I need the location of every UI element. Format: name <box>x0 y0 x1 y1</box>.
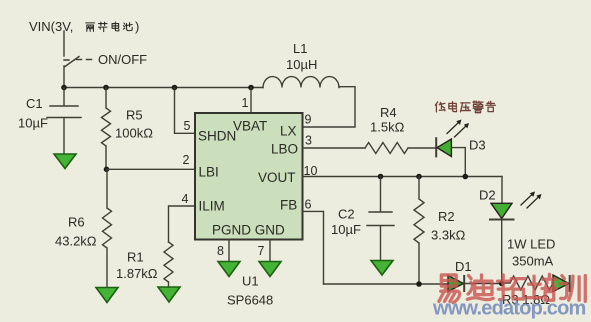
capacitor C1 <box>47 88 81 155</box>
diode arrow right end <box>553 275 570 292</box>
ground GND <box>259 262 281 277</box>
svg-text:LBI: LBI <box>199 165 219 180</box>
resistor R3 <box>502 276 553 290</box>
label VIN CJK 两节电池 <box>86 23 95 31</box>
svg-text:SP6648: SP6648 <box>227 293 273 308</box>
resistor R1 <box>164 242 173 287</box>
wire VIN vertical to switch <box>63 31 65 56</box>
LED D3 <box>436 138 465 176</box>
svg-text:350mA: 350mA <box>512 254 554 269</box>
CJK placeholder groups <box>86 19 496 113</box>
junction dot LBI node <box>104 167 110 173</box>
svg-text:VIN(3V,: VIN(3V, <box>29 19 73 34</box>
arrows D2 <box>521 192 542 209</box>
svg-text:10µF: 10µF <box>18 116 48 131</box>
svg-text:D3: D3 <box>469 138 486 153</box>
svg-text:LBO: LBO <box>271 142 298 157</box>
svg-text:R4: R4 <box>380 105 397 120</box>
junction dot R5 top <box>103 85 109 91</box>
ground R6 <box>96 288 118 303</box>
svg-text:SHDN: SHDN <box>198 129 236 144</box>
wire L1 to LX <box>303 87 356 127</box>
svg-text:10µF: 10µF <box>331 222 361 237</box>
junction dot R2 bottom <box>416 281 422 287</box>
junction dot D2 bottom <box>499 281 505 287</box>
svg-text:R1: R1 <box>127 250 144 265</box>
ground R1 <box>158 287 180 302</box>
pin numbers <box>182 96 318 258</box>
svg-text:FB: FB <box>280 198 297 213</box>
svg-text:LX: LX <box>280 124 297 139</box>
wire VBAT pin1 <box>250 88 252 114</box>
svg-text:8: 8 <box>217 244 224 258</box>
svg-text:D2: D2 <box>479 188 496 203</box>
svg-text:C2: C2 <box>338 207 355 222</box>
ground C1 <box>54 154 76 169</box>
svg-text:10: 10 <box>304 164 318 178</box>
resistor R2 <box>414 177 424 285</box>
label warning CJK 低电压警告 <box>435 102 445 112</box>
svg-text:D1: D1 <box>455 259 472 274</box>
svg-text:R2: R2 <box>438 209 455 224</box>
svg-text:1.5kΩ: 1.5kΩ <box>370 120 405 135</box>
junction dot VIN-C1 <box>61 85 67 91</box>
svg-text:VOUT: VOUT <box>258 170 296 185</box>
svg-text:www.edatop.com: www.edatop.com <box>432 298 586 320</box>
watermark CJK 易迪拓培训 <box>439 275 460 303</box>
arrows D3 <box>447 120 469 138</box>
svg-text:U1: U1 <box>242 274 259 289</box>
junction dot R2 <box>416 174 422 180</box>
svg-text:R5: R5 <box>126 108 143 123</box>
junction dot SHDN <box>172 85 178 91</box>
junction dot pin1/L1 <box>248 85 254 91</box>
IC U1 SP6648 body <box>195 113 303 240</box>
IC pin names <box>198 119 298 238</box>
svg-text:43.2kΩ: 43.2kΩ <box>55 234 97 249</box>
svg-text:): ) <box>135 19 139 34</box>
wire LBO pin3 to R4 <box>303 147 366 149</box>
svg-text:9: 9 <box>305 113 312 127</box>
ground C2 <box>371 261 393 276</box>
svg-text:VBAT: VBAT <box>233 119 267 134</box>
resistor R5 <box>102 88 111 170</box>
resistor R6 <box>103 169 112 287</box>
ground PGND <box>218 262 240 277</box>
LED D2 <box>490 177 514 285</box>
inductor L1 <box>263 77 339 88</box>
svg-text:L1: L1 <box>293 41 307 56</box>
svg-text:2: 2 <box>183 153 190 167</box>
wire PGND pin8 <box>228 240 230 262</box>
junction dot D3 drop <box>463 174 469 180</box>
wire LBI pin2 <box>107 168 196 170</box>
diode D1 <box>448 276 502 292</box>
wire bottom rail <box>324 283 449 285</box>
svg-text:10µH: 10µH <box>286 57 317 72</box>
wire VOUT pin10 <box>303 176 503 178</box>
svg-text:1: 1 <box>242 96 249 110</box>
junction dot C2 <box>378 174 384 180</box>
watermark red CJK <box>439 274 585 302</box>
svg-text:ON/OFF: ON/OFF <box>98 52 147 67</box>
capacitor C2 <box>367 177 394 261</box>
svg-text:7: 7 <box>258 244 265 258</box>
svg-text:C1: C1 <box>26 96 43 111</box>
wire GND pin7 <box>269 240 271 262</box>
svg-text:3: 3 <box>305 134 312 148</box>
resistor R4 <box>365 143 436 154</box>
svg-text:PGND GND: PGND GND <box>212 223 285 238</box>
svg-text:R6: R6 <box>68 215 85 230</box>
svg-text:ILIM: ILIM <box>199 199 225 214</box>
wire top bus <box>64 87 263 89</box>
svg-text:1W LED: 1W LED <box>507 237 555 252</box>
svg-text:1.87kΩ: 1.87kΩ <box>116 266 158 281</box>
svg-text:100kΩ: 100kΩ <box>115 126 153 141</box>
wire FB pin6 <box>303 211 324 284</box>
svg-text:3.3kΩ: 3.3kΩ <box>431 228 466 243</box>
wire ILIM pin4 <box>169 206 196 242</box>
switch ON/OFF <box>64 57 79 88</box>
svg-text:4: 4 <box>182 192 189 206</box>
svg-text:5: 5 <box>184 119 191 133</box>
svg-text:6: 6 <box>305 198 312 212</box>
wire SHDN pin5 <box>175 88 196 134</box>
